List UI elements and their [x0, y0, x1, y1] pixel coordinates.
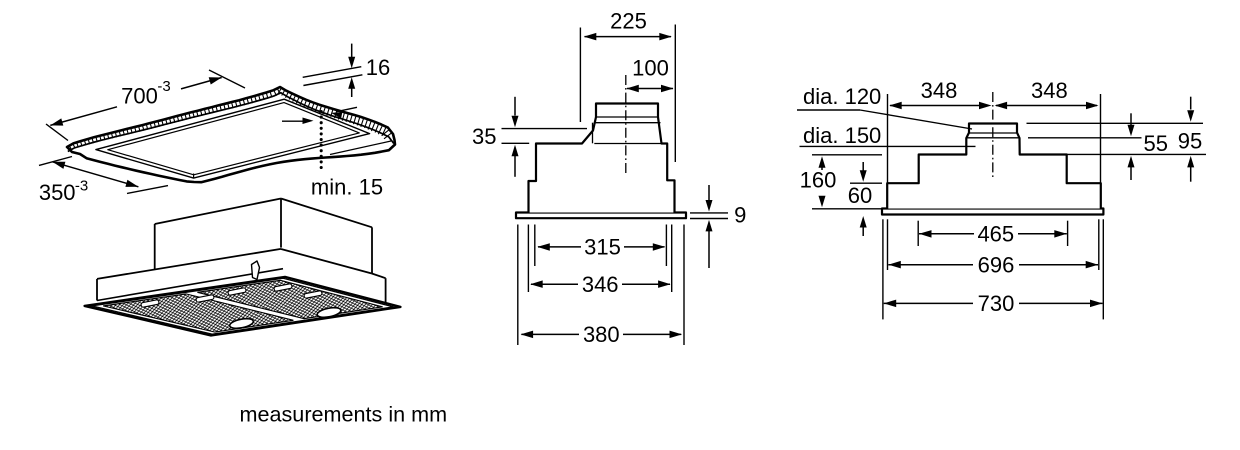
225/100 extension right: [674, 25, 676, 163]
panel edge hatching: [70, 89, 392, 151]
svg-text:16: 16: [366, 55, 390, 80]
9 extension lower: [690, 218, 728, 220]
160 extension lower: [812, 208, 881, 210]
35 extension upper: [502, 128, 588, 130]
bottom flange plate: [516, 213, 686, 219]
filter slot: [274, 284, 293, 292]
95 extension upper (collar top): [1027, 122, 1204, 124]
hood bottom tray outer edge: [85, 277, 401, 336]
bottom flange plate: [882, 209, 1103, 215]
16 extension line lower: [303, 75, 362, 86]
panel underside edge at corner: [330, 141, 391, 155]
svg-text:465: 465: [977, 221, 1014, 246]
348 extension left: [887, 94, 889, 183]
55/95 extension lower (body top): [1067, 153, 1206, 155]
60 extension upper: [850, 182, 882, 184]
dimension 350-3 (panel width): [52, 162, 138, 187]
svg-text:348: 348: [1031, 78, 1068, 103]
collar crease lower: [966, 137, 1019, 139]
chimney bottom-right edge: [281, 249, 372, 274]
svg-text:-3: -3: [157, 78, 170, 95]
tray rim inner line: [92, 278, 394, 334]
dimension 465: [919, 233, 974, 235]
dotted reference line: [320, 110, 323, 113]
collar crease upper: [596, 116, 658, 118]
dimension 730: [884, 302, 973, 304]
cut-out inner rim: [108, 103, 359, 175]
chimney top-right edge: [281, 199, 372, 228]
svg-text:dia. 150: dia. 150: [803, 123, 881, 148]
svg-text:9: 9: [734, 203, 746, 228]
svg-text:35: 35: [472, 124, 496, 149]
min.15 arrow to dotted line: [282, 120, 304, 122]
svg-text:-3: -3: [75, 178, 88, 195]
35 extension lower: [502, 142, 530, 144]
body top-right edge: [372, 274, 386, 279]
dia.120 leader underline: [797, 109, 860, 111]
svg-text:60: 60: [848, 183, 872, 208]
9 extension upper: [690, 212, 728, 214]
body left vertical edge: [96, 279, 98, 301]
svg-text:348: 348: [921, 78, 958, 103]
svg-text:55: 55: [1144, 131, 1168, 156]
dimension 380: [521, 333, 579, 335]
extension lines below flange: [882, 219, 884, 319]
225 extension left: [579, 28, 581, 123]
svg-text:700: 700: [121, 84, 158, 109]
svg-text:min. 15: min. 15: [311, 174, 383, 199]
svg-text:696: 696: [978, 252, 1015, 277]
collar crease upper: [969, 132, 1017, 134]
dia.150 leader line: [800, 145, 976, 147]
svg-text:730: 730: [978, 291, 1015, 316]
svg-text:dia. 120: dia. 120: [803, 84, 881, 109]
extension lines below flange: [517, 225, 519, 346]
filter finger hole left: [229, 317, 254, 330]
chimney left vertical: [154, 224, 156, 269]
svg-text:350: 350: [39, 180, 76, 205]
filter slot: [196, 295, 215, 303]
body top edge behind collar: [594, 143, 667, 145]
svg-text:measurements in mm: measurements in mm: [240, 402, 448, 427]
svg-text:160: 160: [800, 167, 837, 192]
350 extension line right: [127, 186, 168, 194]
filter slot: [304, 291, 323, 299]
duct centerline: [992, 92, 994, 180]
left mesh filter panel: [103, 294, 293, 332]
16 extension line upper: [303, 67, 362, 78]
dimension 700-3 (panel length): [50, 107, 117, 126]
filter finger hole right: [316, 306, 341, 319]
dimension 348 right: [996, 105, 1097, 107]
right mesh filter panel: [197, 280, 382, 318]
700 extension line left: [46, 124, 68, 141]
348 extension right: [1100, 94, 1102, 183]
svg-text:380: 380: [583, 322, 620, 347]
filter slot: [228, 288, 247, 296]
chimney top-left edge: [155, 199, 281, 225]
dia.120 leader line: [860, 110, 972, 129]
panel cut-out opening: [96, 99, 370, 178]
duct centerline: [625, 75, 627, 174]
svg-text:95: 95: [1178, 128, 1202, 153]
panel edge band inner line: [68, 93, 394, 152]
filter latch clip: [252, 261, 260, 280]
svg-text:225: 225: [610, 8, 647, 33]
dimension 100: [627, 88, 673, 90]
body right vertical edge: [385, 278, 387, 303]
cut-out rim corner tick: [193, 174, 195, 179]
duct wall hidden edge: [592, 123, 594, 144]
160 extension upper: [812, 154, 882, 156]
chimney right vertical: [371, 227, 373, 273]
350 extension line left: [39, 157, 72, 166]
lower step housing: [529, 104, 675, 213]
700 extension line right: [209, 70, 245, 88]
svg-text:315: 315: [584, 235, 621, 260]
svg-text:100: 100: [632, 56, 669, 81]
collar crease lower: [595, 122, 661, 124]
body bottom-left edge: [97, 269, 283, 301]
55 extension upper (collar base): [1028, 137, 1142, 139]
filter slot: [141, 300, 160, 308]
svg-text:346: 346: [582, 272, 619, 297]
min.15 arrow to panel edge: [337, 107, 357, 111]
dimension 315: [538, 246, 581, 248]
stepped housing outline: [887, 124, 1101, 209]
dimension 696: [888, 264, 973, 266]
ceiling panel outer wavy outline: [67, 87, 395, 182]
chimney front vertical: [280, 199, 282, 248]
dimension 346: [531, 283, 578, 285]
body top-left edge: [97, 249, 281, 279]
